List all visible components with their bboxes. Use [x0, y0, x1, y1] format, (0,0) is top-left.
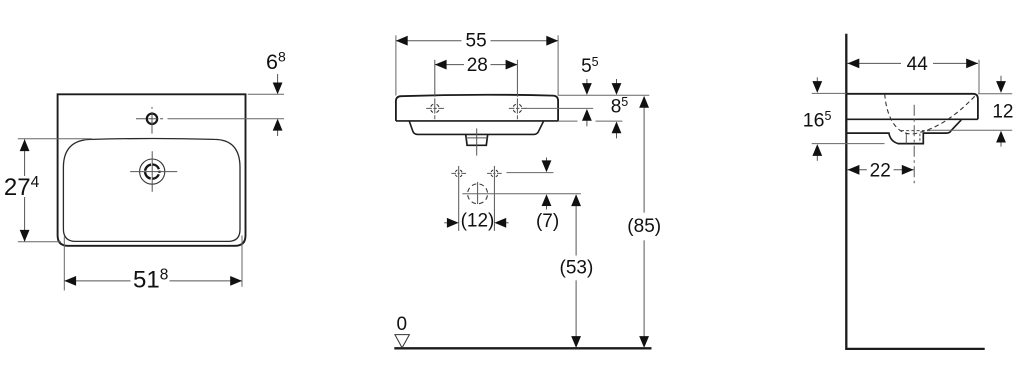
dim 6-8 arrow up — [277, 125, 279, 136]
tap hole left crosshair — [426, 107, 444, 109]
band bottom extension right — [558, 120, 622, 122]
drain axis center line — [913, 105, 915, 184]
svg-text:(12): (12) — [461, 211, 495, 232]
dim (12) line left — [444, 222, 450, 224]
dim 51-8 extension right — [241, 236, 243, 287]
dim 5-5 arrow up — [586, 115, 588, 126]
fixing hole right vertical extension — [493, 166, 495, 231]
dim 16-5 arrow down — [816, 77, 818, 86]
dim 12 arrow down — [1000, 76, 1002, 87]
svg-text:(53): (53) — [560, 258, 594, 279]
fixing hole right dashed circle — [491, 170, 498, 177]
fixing hole right crosshair — [487, 172, 502, 174]
side profile band bottom — [846, 118, 978, 120]
side profile top and front edge — [846, 94, 978, 120]
dim 55 line — [396, 40, 462, 42]
dim 16-5 arrow up — [816, 151, 818, 161]
dim 12 lower extension — [928, 129, 1012, 131]
dim (7) arrow down — [546, 158, 548, 167]
dim 6-8 arrow down — [277, 74, 279, 88]
faucet hole crosshair horizontal — [136, 118, 163, 120]
fixing hole left dashed circle — [455, 170, 462, 177]
dashed bowl contour — [885, 94, 976, 134]
tap hole right crosshair — [509, 107, 527, 109]
dim 51-8 extension left — [63, 237, 65, 291]
fixing hole left crosshair — [451, 172, 466, 174]
trap dashed circle — [468, 184, 488, 204]
dim (53) line — [575, 200, 577, 256]
top edge extension right — [978, 93, 1012, 95]
dim 12 arrow up — [1000, 137, 1002, 147]
washbasin outer outline (top view) — [58, 94, 246, 246]
tap hole left dashed circle — [430, 104, 439, 113]
svg-text:0: 0 — [397, 314, 408, 335]
dim 8-5 arrow down — [616, 79, 618, 88]
dim 27-4 extension bottom — [18, 241, 61, 243]
dim 28 extension verticals through tap holes — [434, 60, 436, 120]
tap hole row extension right — [524, 107, 593, 109]
faucet hole circle — [147, 114, 157, 124]
trap bump hidden vertical dashed — [919, 134, 921, 144]
band bottom edge — [396, 120, 558, 122]
washbasin front band outline — [396, 95, 558, 121]
wall and floor — [846, 34, 984, 349]
dim (7) arrow up — [546, 201, 548, 210]
dim 16-5 extension bottom — [812, 143, 885, 145]
dim 22 line — [848, 169, 867, 171]
drain inner circle with gap — [145, 164, 159, 178]
svg-text:22: 22 — [870, 160, 891, 181]
hidden line dashes under bowl — [901, 130, 930, 132]
dim 16-5 extension top — [812, 92, 847, 94]
drain crosshair horizontal — [130, 171, 177, 173]
dim 55 extension left — [395, 35, 397, 95]
dim (85) line — [643, 102, 645, 213]
trap bump inner vertical — [905, 133, 907, 143]
svg-text:(7): (7) — [536, 211, 559, 232]
trap circle vertical crosshair — [477, 182, 479, 204]
fixing hole row extension right — [507, 172, 554, 174]
dim (12) line right — [503, 222, 509, 224]
dim 51-8 line — [64, 280, 130, 282]
svg-text:12: 12 — [992, 102, 1013, 123]
drain crosshair vertical — [151, 151, 153, 192]
dim 5-5 arrow down — [586, 79, 588, 88]
tap hole right dashed circle — [513, 104, 522, 113]
datum triangle — [395, 335, 410, 348]
svg-text:44: 44 — [907, 54, 929, 75]
dim 44 extension right — [978, 60, 980, 94]
dim 28 line — [435, 64, 464, 66]
drain center line — [476, 128, 478, 155]
dim 6-8 extension line faucet row — [168, 118, 285, 120]
drain outer circle — [140, 159, 165, 184]
dim 55 extension right — [557, 35, 559, 95]
drain outlet box — [466, 134, 488, 145]
svg-text:(85): (85) — [627, 216, 661, 237]
dim 27-4 line — [24, 139, 26, 176]
floor line — [394, 347, 651, 349]
side profile underside with trap bump — [846, 120, 961, 144]
top edge extension right — [558, 94, 649, 96]
dim 27-4 extension top — [18, 138, 92, 140]
drain outlet inner line — [466, 137, 487, 139]
lower trapezoid body — [409, 121, 544, 134]
fixing hole left vertical extension — [458, 166, 460, 231]
trap row line — [462, 193, 581, 195]
svg-text:55: 55 — [466, 30, 487, 51]
dim 8-5 arrow up — [616, 128, 618, 138]
dim 44 line — [848, 62, 902, 64]
basin inner rim (top view) — [63, 139, 240, 242]
faucet hole crosshair vertical — [151, 107, 153, 134]
svg-text:28: 28 — [467, 55, 488, 76]
dim 6-8 extension line top — [248, 93, 284, 95]
